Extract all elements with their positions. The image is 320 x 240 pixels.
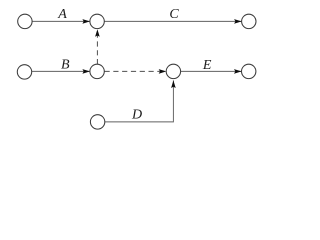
svg-text:E: E	[202, 58, 212, 73]
node 4	[17, 65, 31, 79]
wire E: node6 to node7	[181, 70, 242, 72]
node 6	[166, 64, 180, 78]
wire D: node8 right then up into node6	[105, 80, 173, 122]
node 2	[90, 14, 104, 28]
wire C: node2 to node3	[104, 20, 241, 22]
svg-text:A: A	[57, 7, 67, 22]
dashed dummy wire: node5 up to node2	[96, 29, 98, 64]
svg-text:C: C	[169, 7, 179, 22]
wire B: node4 to node5	[32, 70, 90, 72]
node 5	[90, 64, 104, 78]
wire A: node1 to node2	[32, 20, 90, 22]
node 3	[242, 14, 256, 28]
svg-text:B: B	[61, 58, 70, 73]
node 8	[90, 115, 104, 129]
node 1	[18, 14, 32, 28]
node 7	[242, 64, 256, 78]
svg-text:D: D	[131, 107, 142, 122]
dashed dummy wire: node5 right to node6	[105, 70, 167, 72]
